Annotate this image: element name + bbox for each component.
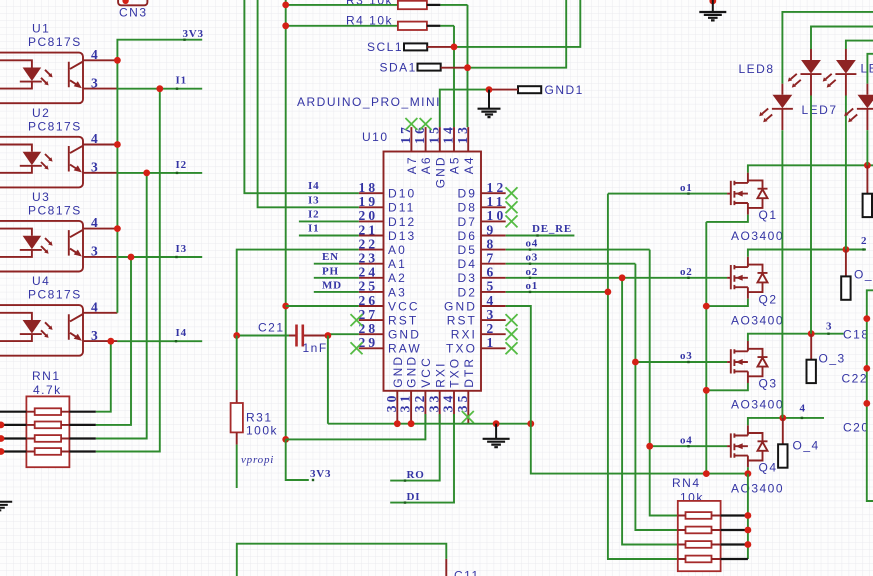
svg-text:RXI: RXI: [433, 361, 447, 387]
svg-text:o2: o2: [680, 266, 693, 278]
svg-text:A7: A7: [405, 155, 419, 174]
junction VCC bottom: [282, 436, 289, 443]
junction VCC/R: [282, 22, 289, 29]
wire C21 to GND rail: [327, 336, 329, 424]
wire RN4 right vertical: [747, 474, 749, 559]
wire net I1 (opto pin3 stub): [117, 88, 202, 90]
svg-text:31: 31: [398, 392, 413, 412]
svg-text:D2: D2: [457, 285, 477, 299]
ground below rail: [495, 424, 497, 439]
svg-text:11: 11: [487, 194, 506, 209]
svg-text:8: 8: [487, 236, 497, 251]
svg-text:21: 21: [358, 222, 378, 237]
svg-text:C21: C21: [258, 321, 285, 335]
wire VCC to pin32: [286, 414, 426, 439]
junction 3V3/pin4 U2: [114, 141, 121, 148]
svg-text:o4: o4: [526, 238, 539, 250]
pin 4 (GND) right: [444, 293, 506, 314]
no-connect X top pin: [405, 118, 417, 130]
wire I3 vertical to RN1: [96, 257, 131, 425]
wire net o2: [506, 278, 727, 545]
svg-text:I4: I4: [176, 327, 187, 339]
svg-text:32: 32: [412, 392, 427, 412]
svg-text:4.7k: 4.7k: [33, 383, 62, 397]
svg-text:33: 33: [426, 392, 441, 412]
svg-text:PC817S: PC817S: [28, 203, 82, 217]
svg-text:R3 10k: R3 10k: [346, 0, 393, 8]
svg-text:o2: o2: [526, 266, 539, 278]
pin 1 (TXO) right: [446, 335, 506, 356]
wire net I2 (opto pin3 stub): [117, 172, 202, 174]
no-connect X pin 29: [351, 342, 363, 354]
wire GND rail under IC: [328, 423, 531, 425]
svg-text:18: 18: [358, 180, 378, 195]
svg-text:U3: U3: [32, 190, 50, 204]
svg-text:LED7: LED7: [802, 103, 838, 117]
svg-text:4: 4: [91, 47, 101, 62]
junction RN1 left edge: [0, 435, 4, 442]
junction right box: [863, 365, 870, 372]
wire net 1 (Q1 drain): [748, 165, 873, 172]
svg-text:3V3: 3V3: [183, 28, 204, 40]
ground (left, cropped): [0, 502, 12, 511]
junction rail gnd stem: [493, 420, 500, 427]
svg-text:DTR: DTR: [462, 357, 476, 388]
svg-text:U1: U1: [32, 22, 50, 36]
pin 10 (D7) right: [457, 208, 506, 229]
svg-text:RST: RST: [447, 314, 477, 328]
wire 3V3 stub bottom: [286, 439, 309, 480]
wire net 3 (Q3 drain): [748, 334, 844, 341]
pin 27 (RST) left: [358, 307, 418, 328]
no-connect X pin 2: [506, 328, 518, 340]
pin 24 (A2) left: [358, 265, 406, 286]
svg-text:LED8: LED8: [739, 62, 775, 76]
jumper O_2: [841, 250, 873, 300]
svg-text:12: 12: [487, 180, 507, 195]
svg-text:GND: GND: [391, 355, 405, 388]
svg-text:35: 35: [455, 392, 470, 412]
svg-text:RXI: RXI: [451, 328, 477, 342]
junction source rail: [703, 470, 710, 477]
svg-text:o3: o3: [680, 350, 693, 362]
jumper SCL1: [367, 40, 454, 54]
wire PH stub: [314, 277, 359, 279]
junction net3/O_3: [808, 330, 815, 337]
pin 7 (D4) right: [457, 251, 505, 272]
wire GND pin4 to rail: [506, 306, 748, 474]
junction RN4 right: [745, 512, 752, 519]
svg-text:20: 20: [358, 208, 378, 223]
svg-text:U2: U2: [32, 106, 50, 120]
jumper GND1: [489, 83, 584, 97]
pin 26 (VCC) left: [358, 293, 419, 314]
wire net SDA (R3 to pin A4 and right): [468, 0, 567, 127]
svg-text:RO: RO: [407, 469, 425, 481]
svg-text:GND: GND: [433, 155, 447, 188]
jumper O_1 (cropped): [866, 165, 868, 193]
svg-text:D10: D10: [388, 187, 416, 201]
svg-text:I1: I1: [308, 223, 319, 235]
svg-text:RN4: RN4: [672, 476, 701, 490]
pin 32 (VCC) bottom: [412, 356, 433, 424]
svg-text:VCC: VCC: [388, 299, 420, 313]
svg-text:TXO: TXO: [448, 357, 462, 388]
svg-text:GND: GND: [444, 299, 477, 313]
svg-text:4: 4: [91, 299, 101, 314]
pin 11 (D8) right: [457, 194, 505, 215]
svg-text:28: 28: [358, 321, 378, 336]
capacitor C21: [237, 321, 328, 355]
transistor Q2 AO3400: [727, 257, 784, 328]
junction rail right corner: [527, 420, 534, 427]
wire MD stub: [314, 291, 359, 293]
svg-text:U10: U10: [362, 130, 389, 144]
svg-text:3V3: 3V3: [310, 468, 331, 480]
wire I4 vertical to RN1: [96, 341, 111, 412]
svg-text:GND1: GND1: [545, 83, 584, 97]
svg-text:RN1: RN1: [32, 369, 61, 383]
pin 18 (D10) left: [358, 180, 416, 201]
wire RN4 row 3 right black: [721, 543, 748, 545]
svg-text:DI: DI: [407, 491, 421, 503]
wire net 2 (Q2 drain): [748, 250, 866, 257]
svg-text:3: 3: [91, 244, 101, 259]
wire RN1 pin row 1 black leads: [0, 411, 26, 413]
svg-text:TXO: TXO: [446, 342, 477, 356]
jumper O_4: [778, 418, 820, 468]
svg-text:22: 22: [358, 236, 378, 251]
pin 14 (A5) top: [441, 124, 462, 174]
wire I2 vertical to RN1: [96, 173, 147, 439]
wire I1 to D13: [299, 235, 359, 237]
svg-text:O_2: O_2: [854, 268, 873, 282]
svg-text:VCC: VCC: [419, 356, 433, 388]
svg-text:SDA1: SDA1: [380, 61, 417, 75]
jumper O_3: [807, 334, 846, 383]
junction o3: [632, 359, 639, 366]
svg-text:C20: C20: [843, 421, 870, 435]
svg-text:3: 3: [91, 160, 101, 175]
svg-text:RAW: RAW: [388, 342, 422, 356]
junction I1: [156, 85, 163, 92]
junction right box: [863, 400, 870, 407]
optocoupler U3: [0, 190, 117, 272]
svg-text:D3: D3: [457, 271, 477, 285]
svg-text:4: 4: [91, 131, 101, 146]
LED LED8: [739, 27, 873, 334]
svg-text:26: 26: [358, 293, 378, 308]
wire RN4 row 1 right black: [721, 514, 748, 516]
wire net 4 (Q4 drain): [748, 418, 824, 425]
wire DI net: [390, 414, 454, 503]
svg-text:2: 2: [861, 235, 867, 247]
svg-text:SCL1: SCL1: [367, 40, 403, 54]
svg-text:vpropi: vpropi: [241, 454, 274, 466]
junction Q4 source / RN4 vertical: [745, 470, 752, 477]
pin 35 (DTR) bottom: [455, 357, 476, 424]
optocoupler U1: [0, 22, 117, 104]
junction RN1 left edge: [0, 422, 4, 429]
wire RO net: [390, 414, 440, 481]
junction I2: [143, 170, 150, 177]
junction o2: [619, 274, 626, 281]
pin 20 (D12) left: [358, 208, 416, 229]
pin 29 (RAW) left: [358, 335, 421, 356]
svg-text:17: 17: [398, 124, 413, 144]
junction A0/R31/C21: [233, 332, 240, 339]
svg-text:CN3: CN3: [119, 6, 148, 20]
junction C21/GND28: [325, 332, 332, 339]
svg-text:I1: I1: [176, 75, 187, 87]
pin 8 (D5) right: [457, 236, 505, 257]
svg-text:6: 6: [487, 265, 497, 280]
LED LED6: [823, 41, 873, 250]
svg-text:I2: I2: [176, 159, 187, 171]
svg-text:13: 13: [455, 124, 470, 144]
connector CN3 (cropped): [118, 0, 147, 20]
svg-text:A3: A3: [388, 285, 407, 299]
net label ticks: [175, 39, 865, 504]
svg-text:D5: D5: [457, 243, 477, 257]
svg-text:100k: 100k: [246, 424, 278, 438]
no-connect X pin 10: [506, 215, 518, 227]
svg-text:7: 7: [487, 251, 497, 266]
junction GND1: [486, 86, 493, 93]
resistor network RN1: [26, 369, 69, 467]
wire right-edge net box (cropped component area): [867, 290, 873, 501]
svg-text:D7: D7: [457, 215, 477, 229]
svg-text:D11: D11: [388, 201, 415, 215]
svg-text:D8: D8: [457, 201, 477, 215]
svg-text:C11: C11: [454, 569, 480, 576]
svg-text:4: 4: [487, 293, 497, 308]
resistor R4: [286, 14, 454, 30]
svg-text:AO3400: AO3400: [731, 482, 784, 496]
pin 19 (D11) left: [358, 194, 415, 215]
wire net o4: [506, 250, 727, 516]
svg-text:GND: GND: [405, 355, 419, 388]
wire RN1 pin row 3 black leads: [0, 437, 26, 439]
junction rail pin31: [408, 420, 415, 427]
svg-text:O_4: O_4: [793, 439, 820, 453]
LED LED5: [844, 54, 873, 166]
wire I1 vertical to RN1: [96, 89, 160, 452]
junction o1: [605, 289, 612, 296]
pin 5 (D2) right: [457, 279, 505, 300]
svg-text:AO3400: AO3400: [731, 398, 784, 412]
junction SDA: [464, 64, 471, 71]
junction VCC pin26: [282, 303, 289, 310]
transistor Q4 AO3400: [727, 425, 784, 496]
transistor Q1 AO3400: [727, 173, 784, 244]
wire net I3 (opto pin3 stub): [117, 256, 202, 258]
junction VCC/R: [282, 2, 289, 9]
resistor R31: [231, 336, 278, 489]
wire Q1 source: [706, 215, 748, 222]
ground GND1: [488, 90, 490, 109]
pin 15 (GND) top: [426, 124, 447, 188]
junction 3V3/pin4 U1: [114, 57, 121, 64]
no-connect X pin 11: [506, 201, 518, 213]
wire common source vertical: [705, 222, 707, 474]
wire Q2 source: [706, 299, 748, 306]
no-connect X top pin: [420, 118, 432, 130]
optocoupler U4: [0, 274, 117, 355]
wire RN1 pin row 2 black leads: [0, 424, 26, 426]
svg-text:Q4: Q4: [759, 461, 778, 475]
wire A0 net: [237, 250, 359, 336]
svg-text:4: 4: [800, 403, 806, 415]
wire VCC pin26: [286, 305, 359, 307]
svg-text:5: 5: [487, 279, 497, 294]
pin 25 (A3) left: [358, 279, 406, 300]
svg-text:AO3400: AO3400: [731, 313, 784, 327]
wire RN4 row 2 right black: [721, 529, 748, 531]
svg-text:A4: A4: [462, 155, 476, 174]
svg-text:MD: MD: [322, 279, 342, 291]
svg-text:o1: o1: [680, 182, 693, 194]
svg-text:1: 1: [487, 335, 497, 350]
svg-text:4: 4: [91, 215, 101, 230]
pin 17 (A7) top: [398, 124, 419, 174]
junction source Q2: [703, 303, 710, 310]
capacitor C11 net: [237, 544, 480, 576]
svg-text:I3: I3: [176, 243, 187, 255]
svg-text:ARDUINO_PRO_MINI: ARDUINO_PRO_MINI: [297, 95, 441, 109]
svg-text:24: 24: [358, 265, 378, 280]
svg-text:14: 14: [441, 124, 456, 144]
svg-text:30: 30: [384, 392, 399, 412]
svg-text:3: 3: [487, 307, 497, 322]
wire net I4 (opto pin3 stub): [117, 340, 202, 342]
wire I2 to D12: [299, 220, 359, 222]
wire I4 to D10: [244, 0, 358, 193]
junction SCL: [451, 44, 458, 51]
wire EN stub: [314, 263, 359, 265]
junction RN4 right: [745, 527, 752, 534]
svg-text:C18: C18: [843, 328, 870, 342]
no-connect X pin 12: [506, 187, 518, 199]
svg-text:A6: A6: [419, 155, 433, 174]
wire VCC vertical: [285, 0, 287, 439]
pin 31 (GND) bottom: [398, 355, 419, 424]
resistor network RN4: [672, 476, 721, 571]
jumper SDA1: [380, 61, 468, 75]
svg-text:D13: D13: [388, 229, 416, 243]
transistor Q3 AO3400: [727, 341, 784, 412]
svg-text:D12: D12: [388, 215, 416, 229]
svg-text:I3: I3: [308, 194, 319, 206]
svg-text:Q1: Q1: [759, 208, 778, 222]
svg-text:3: 3: [91, 328, 101, 343]
wire RN4 row 4 right black: [721, 558, 748, 560]
svg-text:25: 25: [358, 279, 378, 294]
svg-text:1nF: 1nF: [303, 341, 328, 355]
svg-text:3: 3: [91, 75, 101, 90]
svg-text:34: 34: [441, 392, 456, 412]
svg-text:A0: A0: [388, 243, 407, 257]
svg-text:D6: D6: [457, 229, 477, 243]
pin 12 (D9) right: [457, 180, 506, 201]
junction net1/O_1/LED: [864, 162, 871, 169]
pin 22 (A0) left: [358, 236, 406, 257]
svg-text:10: 10: [487, 208, 507, 223]
wire RN1 pin row 4 black leads: [0, 450, 26, 452]
junction I4: [107, 338, 114, 345]
wire Q4 source: [747, 467, 749, 473]
wire net o3: [506, 264, 727, 530]
junction net4/O_4: [779, 415, 786, 422]
wire Q3 source: [706, 383, 748, 390]
svg-text:D9: D9: [457, 187, 477, 201]
pin 2 (RXI) right: [451, 321, 506, 342]
svg-text:EN: EN: [322, 251, 339, 263]
pin 21 (D13) left: [358, 222, 416, 243]
resistor R3: [286, 0, 468, 9]
wire 3V3 rail: [117, 40, 202, 313]
svg-text:GND: GND: [388, 328, 421, 342]
junction 3V3/pin4 U3: [114, 225, 121, 232]
svg-text:PC817S: PC817S: [28, 119, 82, 133]
no-connect X pin 1: [506, 342, 518, 354]
svg-text:DE_RE: DE_RE: [532, 223, 572, 235]
no-connect X pin 3: [506, 314, 518, 326]
junction o4: [646, 443, 653, 450]
wire I3 to D11: [258, 0, 359, 207]
svg-text:I4: I4: [308, 180, 319, 192]
wire DE_RE stub: [506, 235, 575, 237]
svg-text:3: 3: [826, 321, 832, 333]
pin 34 (TXO) bottom: [441, 357, 462, 424]
optocoupler U2: [0, 106, 117, 187]
svg-text:AO3400: AO3400: [731, 229, 784, 243]
junction rail pin30: [394, 420, 401, 427]
wire GND pin28 from C21: [328, 333, 359, 335]
svg-text:D4: D4: [457, 257, 477, 271]
svg-text:A1: A1: [388, 257, 407, 271]
svg-text:I2: I2: [308, 208, 319, 220]
svg-text:o4: o4: [680, 434, 693, 446]
pin 28 (GND) left: [358, 321, 420, 342]
pin 33 (RXI) bottom: [426, 361, 447, 423]
pin 9 (D6) right: [457, 222, 505, 243]
junction source Q3: [703, 387, 710, 394]
svg-text:19: 19: [358, 194, 378, 209]
junction net2/O_2: [843, 246, 850, 253]
svg-text:2: 2: [487, 321, 497, 336]
svg-text:Q2: Q2: [759, 292, 778, 306]
svg-text:o3: o3: [526, 252, 539, 264]
junction right box: [863, 315, 870, 322]
pin 30 (GND) bottom: [384, 355, 405, 424]
svg-text:A5: A5: [448, 155, 462, 174]
svg-text:23: 23: [358, 251, 378, 266]
svg-text:C22: C22: [842, 372, 869, 386]
pin 16 (A6) top: [412, 124, 433, 174]
svg-text:RST: RST: [388, 314, 418, 328]
LED LED7: [759, 12, 873, 418]
wire GND1 net: [440, 90, 489, 128]
no-connect X pin 35: [462, 411, 474, 423]
pin 23 (A1) left: [358, 251, 406, 272]
pin 13 (A4) top: [455, 124, 476, 174]
svg-text:R31: R31: [246, 411, 273, 425]
svg-text:A2: A2: [388, 271, 407, 285]
pin 3 (RST) right: [447, 307, 506, 328]
junction RN4 right: [745, 541, 752, 548]
svg-text:PH: PH: [322, 265, 339, 277]
